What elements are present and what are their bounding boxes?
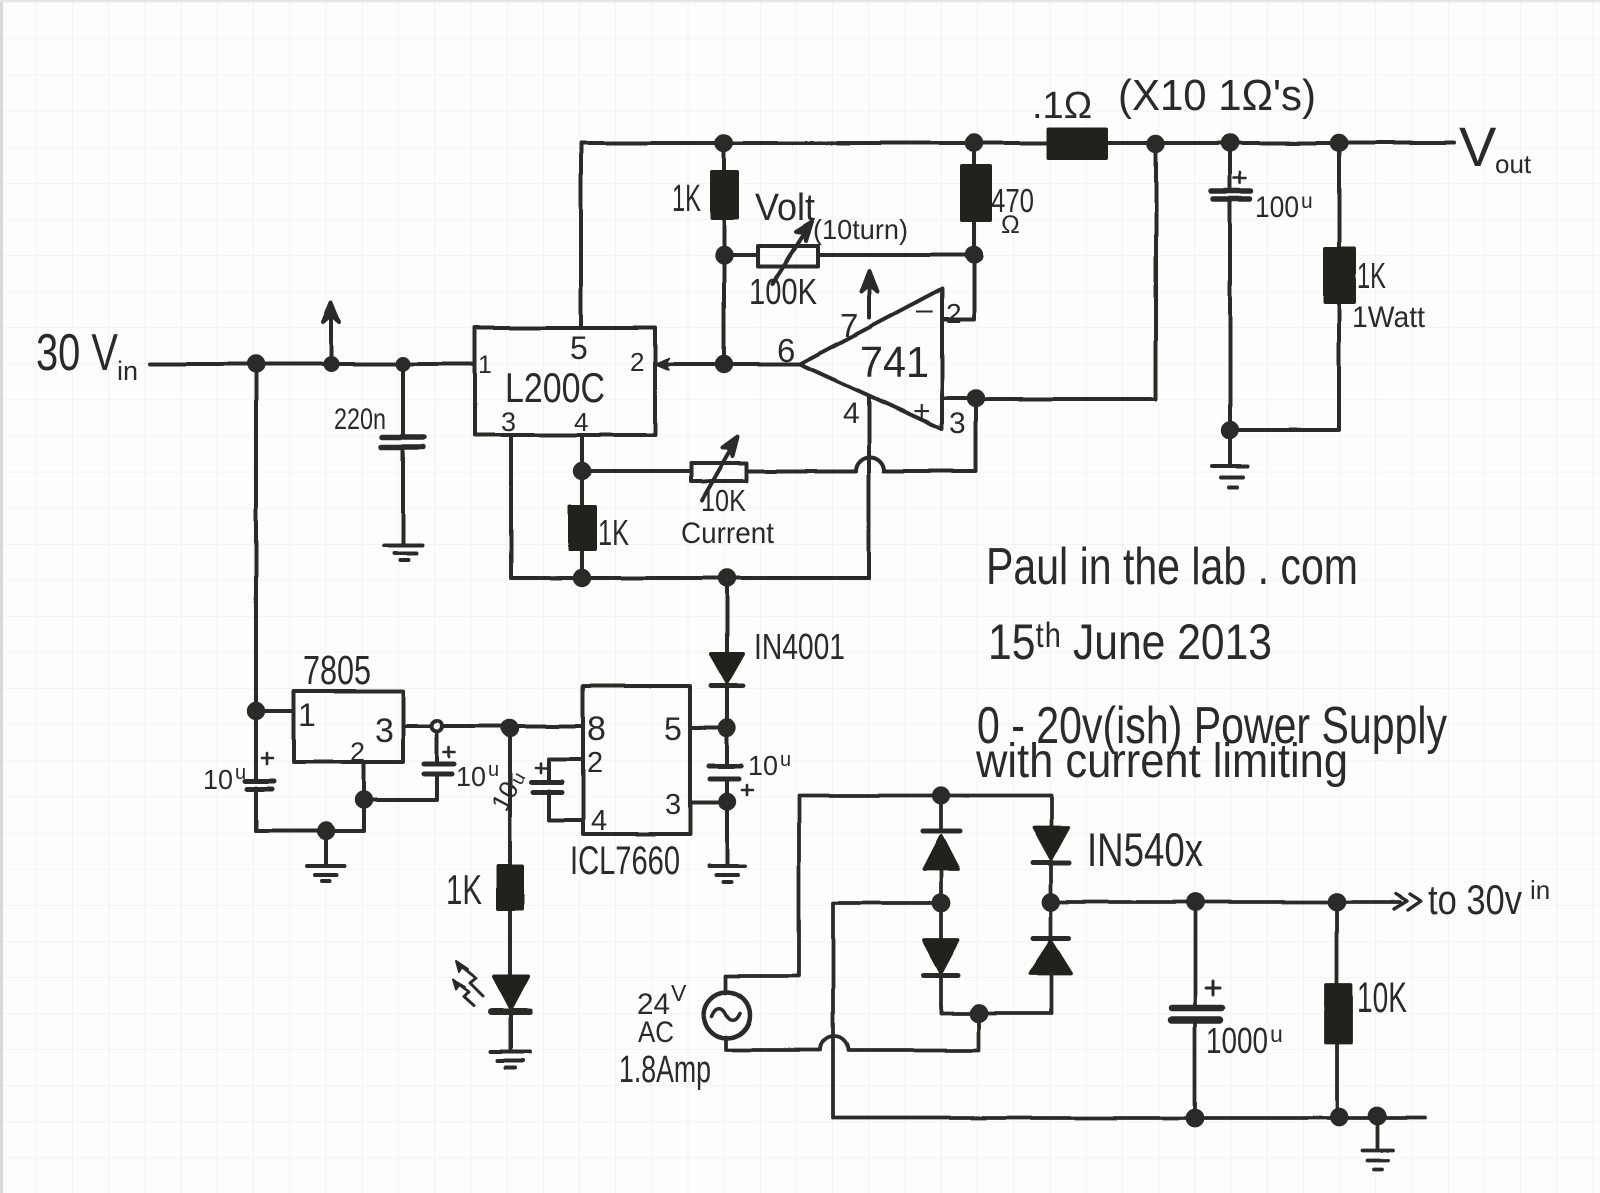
wire 7805 pin3 out <box>403 724 583 728</box>
svg-text:4: 4 <box>574 407 588 437</box>
svg-text:2: 2 <box>587 747 603 779</box>
node 10K tap <box>1330 895 1345 910</box>
diode D2 bridge right top <box>1049 796 1053 935</box>
svg-text:(10turn): (10turn) <box>813 214 908 245</box>
svg-text:IN540x: IN540x <box>1087 823 1203 876</box>
svg-text:10: 10 <box>203 764 233 795</box>
resistor 1K under L200C <box>570 507 595 549</box>
svg-text:1Watt: 1Watt <box>1352 301 1426 334</box>
node output junction <box>717 357 731 371</box>
svg-text:Paul in the lab . com: Paul in the lab . com <box>986 538 1358 596</box>
svg-text:AC: AC <box>638 1016 674 1049</box>
node 1K bottom junction <box>717 248 731 262</box>
wire 470 node to op-amp pin2 <box>942 255 974 319</box>
wire pot100K row <box>724 253 974 257</box>
wire mid-left to ground rail <box>833 903 941 1118</box>
arrow pin7 supply <box>867 282 871 318</box>
op-amp? no: L200C regulator U1 box <box>475 328 655 435</box>
svg-text:10: 10 <box>748 750 778 781</box>
wire AC bottom with hop <box>726 1013 979 1050</box>
capacitor 100u <box>1211 191 1251 199</box>
wire ICL pin3 <box>690 801 727 805</box>
node bridge top <box>934 789 948 803</box>
svg-text:–: – <box>916 293 933 326</box>
node 30Vin-7805 <box>249 704 263 718</box>
svg-text:+: + <box>913 395 931 428</box>
svg-text:u: u <box>235 762 246 784</box>
svg-text:.1Ω: .1Ω <box>1032 85 1092 127</box>
diode D3 bridge left bottom <box>924 940 958 972</box>
svg-text:3: 3 <box>665 789 681 821</box>
potentiometer 10K body <box>691 463 747 481</box>
svg-text:741: 741 <box>860 338 929 387</box>
node rail-1K <box>717 136 731 150</box>
potentiometer 10K arrow <box>702 444 734 500</box>
svg-text:V: V <box>671 980 687 1006</box>
wire DC out to 30vin <box>1051 900 1400 904</box>
svg-text:10: 10 <box>456 761 486 792</box>
wire top rail <box>581 141 1454 145</box>
svg-text:8: 8 <box>587 710 606 748</box>
svg-text:15ᵗʰ June 2013: 15ᵗʰ June 2013 <box>988 614 1272 670</box>
capacitor 1000u <box>1193 902 1197 1118</box>
diode D1 bridge left top <box>939 796 943 940</box>
wire pin3 to sense <box>942 396 976 400</box>
wire L200C pin4 down <box>580 436 584 578</box>
node rail-pin4 <box>575 571 589 585</box>
svg-text:1K: 1K <box>1357 255 1386 296</box>
svg-text:4: 4 <box>591 805 607 837</box>
svg-text:u: u <box>780 749 791 771</box>
wire 470 stubs <box>972 143 976 255</box>
svg-text:u: u <box>1301 190 1313 213</box>
svg-text:V: V <box>1459 115 1497 178</box>
ground LED <box>491 1052 530 1068</box>
wire 1K 1Watt <box>1230 143 1339 430</box>
LED light arrows <box>461 966 483 996</box>
svg-text:1K: 1K <box>672 178 701 220</box>
wire L200C pin3 down <box>509 436 513 578</box>
capacitor 10u at 7805 output <box>364 731 437 800</box>
wire sense line down-left to pin3 <box>976 144 1156 399</box>
svg-text:L200C: L200C <box>505 364 605 411</box>
svg-text:1: 1 <box>478 351 492 379</box>
node 1000u gnd <box>1188 1111 1203 1126</box>
node 1K led tap <box>503 721 517 735</box>
svg-text:2: 2 <box>946 298 962 329</box>
resistor 1K 1Watt <box>1325 249 1354 302</box>
svg-text:100: 100 <box>1255 191 1299 224</box>
svg-text:10K: 10K <box>1357 974 1407 1022</box>
ground 220n <box>384 545 422 560</box>
node pin3 junction <box>969 391 983 405</box>
svg-text:ICL7660: ICL7660 <box>570 839 680 883</box>
wire 30Vin down to 7805 <box>256 364 294 711</box>
AC source 24V <box>704 992 750 1038</box>
potentiometer 100K arrow <box>772 228 808 284</box>
svg-text:100K: 100K <box>749 271 817 312</box>
node 1000u tap <box>1188 895 1203 910</box>
svg-text:7805: 7805 <box>303 647 371 693</box>
voltage regulator 7805 box <box>294 691 403 762</box>
svg-text:u: u <box>1270 1021 1283 1047</box>
svg-text:10K: 10K <box>701 483 746 518</box>
ground 100u <box>1212 430 1248 487</box>
svg-text:6: 6 <box>777 332 795 369</box>
node rail after shunt <box>1149 137 1163 151</box>
node pin2 tap <box>357 793 371 807</box>
svg-text:3: 3 <box>949 407 966 440</box>
wire 220n stub <box>401 364 405 545</box>
capacitor 10u at 7805 input <box>254 711 258 831</box>
svg-text:220n: 220n <box>334 403 386 436</box>
node 10K gnd <box>1332 1110 1347 1125</box>
wire 1K top stub <box>722 143 726 255</box>
svg-text:1000: 1000 <box>1206 1020 1268 1061</box>
op-amp U2 741 triangle <box>800 289 942 429</box>
node gnd tap <box>319 824 333 838</box>
wire ICL pin5 <box>690 726 727 730</box>
svg-text:4: 4 <box>843 397 860 430</box>
wire AC top to bridge <box>726 796 1051 993</box>
resistor 1K top <box>712 172 737 218</box>
node input junction <box>249 357 263 371</box>
resistor 470 <box>962 166 990 220</box>
wire bottom ground rail <box>833 1116 1425 1120</box>
svg-text:IN4001: IN4001 <box>754 626 845 667</box>
node 220n tap <box>398 359 409 370</box>
wire 1K junction down to output node <box>722 255 726 364</box>
wire L200C pin5 to top rail <box>579 143 583 327</box>
svg-text:2: 2 <box>350 737 365 767</box>
svg-text:2: 2 <box>630 347 644 377</box>
node bridge mid right <box>1044 895 1059 910</box>
capacitor 10u at ICL7660 output <box>725 728 729 866</box>
node bridge bottom <box>972 1006 987 1021</box>
svg-text:5: 5 <box>570 330 588 366</box>
svg-text:out: out <box>1495 149 1532 179</box>
svg-text:in: in <box>117 356 138 386</box>
LED D5 <box>494 976 528 1008</box>
node rail-470 <box>967 136 981 150</box>
svg-text:3: 3 <box>375 712 394 750</box>
diode 1N4001 <box>725 578 729 728</box>
resistor 10K bleeder <box>1335 902 1339 1117</box>
svg-text:3: 3 <box>501 407 516 437</box>
wire output pin6 to L200C pin2 <box>655 362 800 366</box>
wire pin3 down to 10K pot row with hop <box>747 398 976 471</box>
wire 100u stub <box>1228 143 1232 430</box>
node pin4 tap <box>575 464 589 478</box>
svg-text:1: 1 <box>298 697 316 733</box>
wire 7805 ground bottom <box>256 762 364 831</box>
svg-text:(X10 1Ω's): (X10 1Ω's) <box>1118 71 1316 120</box>
svg-text:30 V: 30 V <box>36 324 118 382</box>
node bridge mid left <box>934 896 949 911</box>
wire bottom rail of control <box>511 576 869 580</box>
svg-text:7: 7 <box>840 307 858 344</box>
node rail-diode <box>720 571 734 585</box>
wire 30Vin main <box>150 362 475 366</box>
svg-text:Volt: Volt <box>755 187 815 229</box>
node rail 100u <box>1223 136 1237 150</box>
svg-text:Ω: Ω <box>1001 211 1020 239</box>
svg-text:with current limiting: with current limiting <box>975 735 1348 788</box>
capacitor 10u at ICL7660 pins 2-4 <box>549 759 583 820</box>
node gnd junction <box>1223 423 1237 437</box>
ground ICL <box>709 866 745 882</box>
capacitor 220n <box>381 437 424 447</box>
svg-text:1K: 1K <box>598 512 629 553</box>
potentiometer 100K body <box>758 246 818 266</box>
svg-text:1.8Amp: 1.8Amp <box>619 1049 711 1091</box>
ground main <box>1362 1117 1393 1169</box>
svg-text:in: in <box>1530 875 1550 905</box>
node 470 bottom <box>967 248 981 262</box>
svg-text:1K: 1K <box>446 866 482 913</box>
wire 1K LED <box>510 728 511 1052</box>
node open circle <box>432 721 443 732</box>
charge pump ICL7660 box <box>583 686 690 834</box>
node ICL pin3 tap <box>720 795 734 809</box>
wire bridge bottom <box>941 1011 1051 1015</box>
diode D4 bridge right bottom <box>1033 936 1069 941</box>
svg-text:Current: Current <box>681 517 775 550</box>
svg-text:5: 5 <box>664 711 682 747</box>
arrow up on input wire <box>329 312 333 364</box>
ground 7805 <box>307 831 345 881</box>
node rail 1K1W <box>1332 136 1346 150</box>
resistor 1K LED <box>498 866 522 909</box>
wire pot 10K row <box>582 469 691 473</box>
node pin5 junction <box>720 721 734 735</box>
node gnd stub <box>1370 1109 1385 1124</box>
svg-text:to 30v: to 30v <box>1428 876 1522 923</box>
wire 741 pin4 down to bottom rail <box>867 396 871 578</box>
resistor R .1ohm on rail <box>1048 129 1106 158</box>
